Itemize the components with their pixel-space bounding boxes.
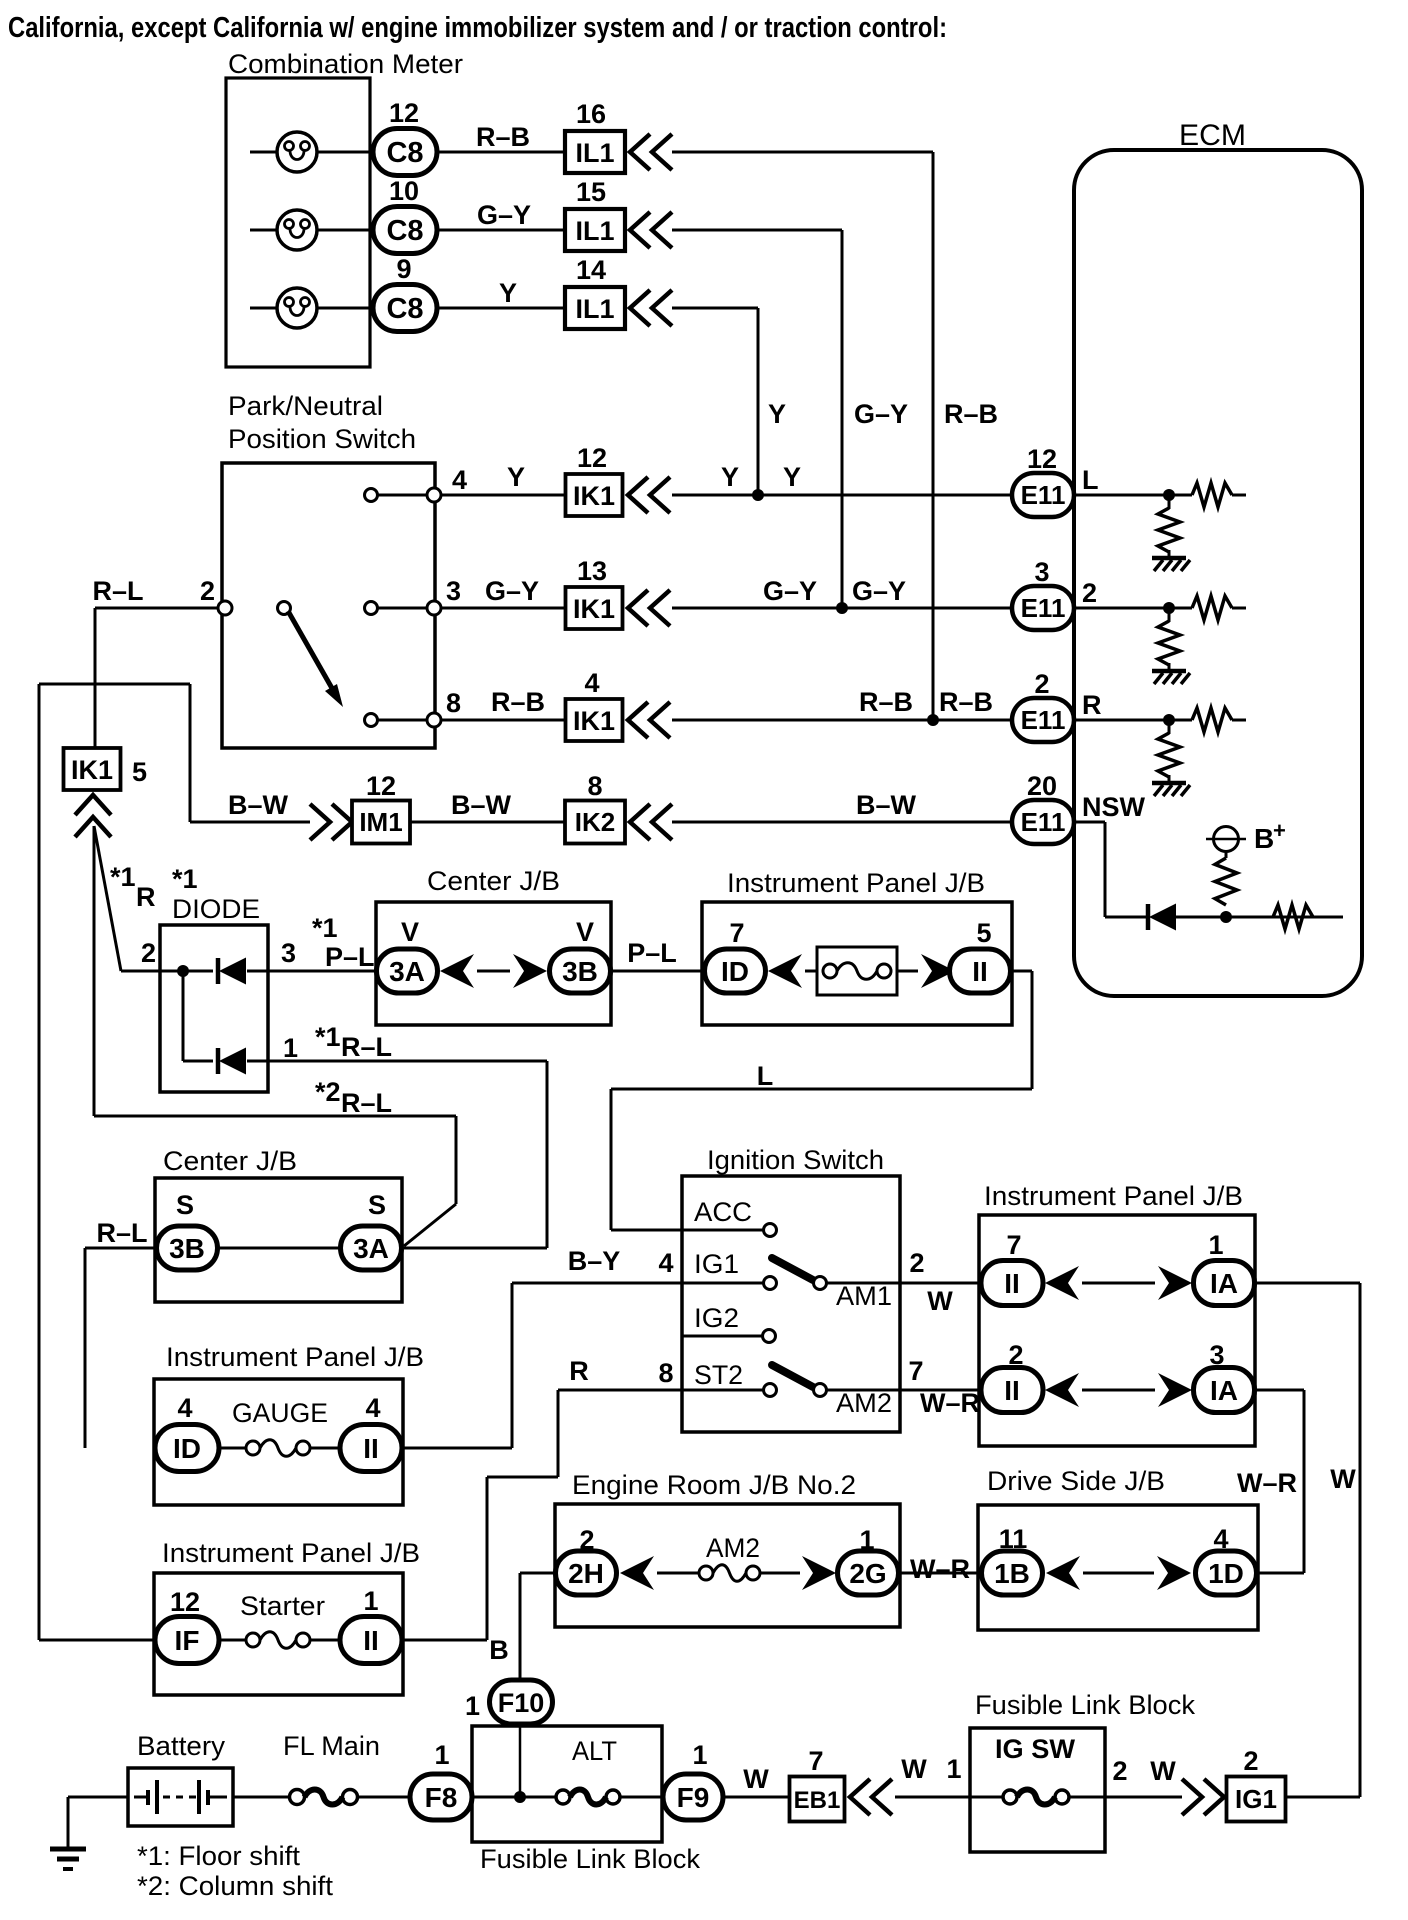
svg-text:IK1: IK1 (573, 706, 615, 736)
connector IK1 pin 12 (566, 474, 623, 516)
ground symbol (67, 1797, 70, 1848)
svg-text:2: 2 (1112, 1756, 1127, 1786)
svg-text:G–Y: G–Y (485, 576, 539, 606)
connector E11 pin 2 (R) (1012, 698, 1074, 742)
wire R-B from IL1 16 down to row R junction (672, 151, 933, 154)
svg-text:4: 4 (658, 1248, 673, 1278)
svg-text:IK1: IK1 (573, 594, 615, 624)
svg-text:7: 7 (729, 918, 744, 948)
svg-text:Y: Y (507, 462, 525, 492)
wire L from II pin 5 to ignition switch ACC (1010, 970, 1032, 973)
ECM NSW internal wire (1074, 821, 1105, 824)
svg-text:3: 3 (1034, 557, 1049, 587)
svg-text:Ignition Switch: Ignition Switch (707, 1145, 884, 1175)
wire F10 stem (519, 1724, 522, 1797)
wire W-R from IA3 to drive side J/B 1D (1254, 1389, 1304, 1392)
svg-text:Drive Side J/B: Drive Side J/B (987, 1466, 1165, 1496)
diode D1 (216, 958, 221, 984)
svg-text:Instrument Panel J/B: Instrument Panel J/B (984, 1181, 1243, 1211)
svg-text:Y: Y (783, 462, 801, 492)
connector ID pin 7 (705, 949, 766, 993)
svg-text:G–Y: G–Y (477, 200, 531, 230)
connector IL1 pin 14 (565, 287, 625, 329)
svg-text:IM1: IM1 (359, 807, 402, 837)
svg-text:3B: 3B (169, 1233, 205, 1264)
svg-text:E11: E11 (1021, 705, 1066, 735)
svg-text:R–B: R–B (491, 687, 545, 717)
chevrons before IG1 (1182, 1779, 1202, 1815)
svg-text:C8: C8 (386, 215, 423, 247)
wire R-B C8 to IL1 (437, 151, 565, 154)
switch contact pin 4 row (377, 494, 428, 497)
junction node R-B (927, 714, 939, 726)
svg-text:ID: ID (173, 1433, 201, 1464)
svg-text:IL1: IL1 (575, 138, 614, 168)
svg-text:2: 2 (909, 1248, 924, 1278)
connector C8 pin 12 (373, 129, 437, 176)
svg-text:II: II (363, 1625, 379, 1656)
svg-text:W–R: W–R (910, 1554, 970, 1584)
svg-text:Battery: Battery (137, 1731, 226, 1761)
arrow into 1B (1046, 1556, 1080, 1590)
arrow into II 2 (1045, 1373, 1079, 1407)
svg-text:2: 2 (1008, 1340, 1023, 1370)
svg-text:Y: Y (499, 278, 517, 308)
svg-text:1: 1 (283, 1033, 298, 1063)
svg-text:G–Y: G–Y (852, 576, 906, 606)
svg-text:IG1: IG1 (1235, 1784, 1277, 1814)
svg-text:16: 16 (576, 99, 606, 129)
wire Y C8 to IL1 (437, 307, 565, 310)
junction node F10 branch (514, 1791, 526, 1803)
svg-text:*1: *1 (110, 862, 136, 892)
svg-text:14: 14 (576, 255, 606, 285)
wire through fusible link block (472, 1796, 556, 1799)
wire G-Y C8 to IL1 (437, 229, 565, 232)
lamp bulb 3 in combination meter (250, 307, 277, 310)
arrow to 1D (1157, 1556, 1191, 1590)
svg-text:II: II (1004, 1375, 1020, 1406)
svg-text:ECM: ECM (1179, 119, 1246, 152)
svg-text:2: 2 (200, 576, 215, 606)
svg-text:5: 5 (132, 757, 147, 787)
svg-text:13: 13 (577, 556, 607, 586)
wire R-B switch pin8 to IK1 (441, 719, 566, 722)
svg-text:W: W (927, 1286, 953, 1316)
svg-text:2: 2 (1243, 1746, 1258, 1776)
connector E11 pin 20 (NSW) (1012, 800, 1074, 844)
svg-text:Instrument Panel J/B: Instrument Panel J/B (162, 1538, 420, 1568)
connector II pin 4 (340, 1425, 402, 1472)
svg-text:IL1: IL1 (575, 294, 614, 324)
svg-text:11: 11 (999, 1524, 1028, 1554)
svg-text:R–L: R–L (341, 1088, 392, 1118)
connector II pin 7 (981, 1261, 1043, 1306)
svg-text:Starter: Starter (240, 1591, 325, 1621)
ECM internal wire to B+ node (1176, 916, 1343, 919)
connector ID pin 4 (155, 1425, 219, 1472)
connector C8 pin 10 (373, 207, 437, 254)
svg-text:3: 3 (1209, 1340, 1224, 1370)
svg-text:1: 1 (434, 1740, 449, 1770)
ECM box (1074, 150, 1362, 996)
connector IK1 pin 13 (566, 587, 623, 629)
ECM internal pull-up row y=608 (1074, 607, 1192, 610)
connector 1B pin 11 (982, 1551, 1043, 1595)
svg-text:R–B: R–B (939, 687, 993, 717)
svg-text:R: R (569, 1356, 589, 1386)
svg-text:1: 1 (465, 1691, 480, 1721)
svg-text:R: R (1082, 690, 1102, 720)
fusible link block box (472, 1726, 662, 1842)
fuse box (817, 947, 897, 995)
svg-text:B: B (1254, 823, 1274, 854)
svg-text:B–W: B–W (451, 790, 512, 820)
svg-text:12: 12 (389, 98, 419, 128)
connector F10 pin 1 (490, 1680, 553, 1724)
svg-text:ACC: ACC (694, 1197, 752, 1227)
svg-text:G–Y: G–Y (763, 576, 817, 606)
svg-text:Y: Y (721, 462, 739, 492)
connector IK2 pin 8 (565, 801, 625, 844)
svg-text:E11: E11 (1021, 593, 1066, 623)
svg-text:3: 3 (281, 938, 296, 968)
connector EB1 pin 7 (790, 1777, 845, 1822)
svg-text:R–L: R–L (96, 1218, 147, 1248)
connector E11 pin 3 (2) (1012, 586, 1074, 630)
svg-text:C8: C8 (386, 137, 423, 169)
connector chevrons at IL1 pin 16 (630, 134, 650, 170)
wire B-W IM1 to IK2 (410, 821, 565, 824)
svg-text:4: 4 (177, 1393, 192, 1423)
starter box (154, 1573, 403, 1695)
wire R-B IK1 to ECM E11 pin 2 (672, 719, 1013, 722)
junction node B+ branch (1220, 911, 1232, 923)
svg-text:E11: E11 (1021, 480, 1066, 510)
svg-text:*1: *1 (315, 1022, 341, 1052)
svg-text:4: 4 (1213, 1524, 1228, 1554)
FL Main fusible link (290, 1790, 305, 1805)
svg-text:12: 12 (366, 771, 396, 801)
wire Y IK1 to ECM E11 pin 12 (672, 494, 1013, 497)
center J/B lower box (155, 1178, 402, 1302)
switch contact pin 8 row (377, 719, 428, 722)
connector IA pin 3 (1194, 1368, 1255, 1413)
ground (1152, 669, 1186, 674)
wire diode pin 3 to Center J/B 3A P-L (247, 970, 377, 973)
wire G-Y from IL1 15 down to row 2 junction (672, 229, 842, 232)
wire G-Y IK1 to ECM E11 pin 3 (672, 607, 1013, 610)
diode D2 (216, 1048, 221, 1074)
connector IG1 pin 2 (1227, 1777, 1286, 1822)
svg-text:GAUGE: GAUGE (232, 1398, 328, 1428)
connector IL1 pin 15 (565, 209, 625, 251)
svg-text:2G: 2G (849, 1558, 886, 1589)
svg-text:R–L: R–L (92, 576, 143, 606)
connector 3A (S) (341, 1226, 402, 1270)
connector IK1 pin 4 (566, 699, 623, 741)
svg-text:R–B: R–B (476, 122, 530, 152)
instrument panel J/B right box (979, 1215, 1255, 1446)
wire AM2 to II pin 2 (826, 1389, 981, 1392)
wire G-Y switch pin3 to IK1 (441, 607, 566, 610)
svg-text:W–R: W–R (920, 1388, 980, 1418)
svg-text:IK1: IK1 (573, 481, 615, 511)
svg-text:1: 1 (946, 1754, 961, 1784)
combination meter box (226, 78, 370, 367)
svg-text:1: 1 (692, 1740, 707, 1770)
svg-text:20: 20 (1027, 771, 1057, 801)
svg-text:7: 7 (808, 1746, 823, 1776)
arrow to 3B (513, 954, 547, 988)
park/neutral position switch box (222, 463, 435, 748)
svg-text:Center J/B: Center J/B (427, 866, 560, 896)
wire R-L from switch pin 2 to IK1 pin 5 (95, 607, 218, 610)
svg-text:II: II (1004, 1268, 1020, 1299)
svg-text:S: S (176, 1190, 194, 1220)
connector E11 pin 12 (L) (1012, 473, 1074, 517)
junction node diode pin 2 (177, 965, 189, 977)
ignition switch box (682, 1176, 900, 1432)
svg-text:W: W (1150, 1756, 1176, 1786)
diode block box (160, 925, 268, 1092)
ground (1152, 781, 1186, 786)
svg-text:4: 4 (365, 1393, 380, 1423)
svg-text:3A: 3A (353, 1233, 389, 1264)
svg-text:*1: Floor shift: *1: Floor shift (137, 1841, 301, 1871)
IG SW fusible link (1003, 1790, 1017, 1804)
connector 3B (S) (157, 1226, 218, 1270)
svg-text:IL1: IL1 (575, 216, 614, 246)
lamp bulb 2 in combination meter (250, 229, 277, 232)
wire Y from IL1 14 down to row L junction (672, 307, 758, 310)
svg-text:ST2: ST2 (694, 1360, 743, 1390)
connector chevrons at IL1 pin 15 (630, 212, 650, 248)
svg-text:2: 2 (579, 1525, 594, 1555)
connector II pin 5 (950, 949, 1011, 993)
svg-text:12: 12 (1027, 444, 1057, 474)
ground (1152, 556, 1186, 561)
wire between arrows (477, 970, 510, 973)
svg-text:Center J/B: Center J/B (163, 1146, 297, 1176)
chevrons at IK1 pin 13 (628, 590, 648, 626)
svg-text:Instrument Panel J/B: Instrument Panel J/B (727, 868, 985, 898)
connector 3A (V) (377, 949, 438, 993)
svg-text:8: 8 (658, 1358, 673, 1388)
svg-text:IG SW: IG SW (995, 1734, 1076, 1764)
svg-text:1: 1 (363, 1586, 378, 1616)
connector II pin 2 (981, 1368, 1043, 1413)
svg-text:1: 1 (1208, 1230, 1223, 1260)
connector IM1 pin 12 (352, 801, 410, 844)
svg-text:W: W (901, 1754, 927, 1784)
connector 1D pin 4 (1196, 1551, 1257, 1595)
switch contact pin 2 and lever (218, 601, 232, 615)
starter fuse (219, 1639, 246, 1642)
svg-text:IF: IF (175, 1625, 200, 1656)
svg-text:7: 7 (1006, 1230, 1021, 1260)
wire II7 to IA1 (1082, 1282, 1155, 1285)
fusible link block right box (970, 1728, 1105, 1852)
wire AM1 to II pin 7 (826, 1282, 981, 1285)
arrow into II 7 (1045, 1266, 1079, 1300)
svg-text:3A: 3A (389, 956, 425, 987)
lamp bulb 1 in combination meter (250, 151, 277, 154)
svg-text:V: V (401, 917, 419, 947)
svg-text:ALT: ALT (572, 1736, 617, 1766)
svg-text:+: + (1273, 818, 1286, 843)
svg-text:NSW: NSW (1082, 792, 1146, 822)
connector IL1 pin 16 (565, 131, 625, 173)
wire 1B to 1D (1083, 1572, 1154, 1575)
chevrons at EB1 (850, 1779, 870, 1815)
svg-text:10: 10 (389, 176, 419, 206)
svg-text:IK1: IK1 (71, 755, 113, 785)
connector IK1 pin 5 (64, 748, 121, 790)
svg-text:Fusible Link Block: Fusible Link Block (975, 1690, 1195, 1720)
connector IF pin 12 (155, 1617, 219, 1664)
connector chevrons at IL1 pin 14 (630, 290, 650, 326)
arrow to 2G (802, 1556, 836, 1590)
svg-text:B–W: B–W (228, 790, 289, 820)
svg-text:R–B: R–B (859, 687, 913, 717)
chevrons before IM1 (310, 804, 330, 840)
connector F8 pin 1 (410, 1774, 472, 1820)
engine room J/B box (555, 1504, 900, 1627)
ECM internal diode (1146, 904, 1151, 930)
drive side J/B box (978, 1505, 1258, 1630)
wire battery to FL main (68, 1796, 128, 1799)
wire B-Y II to ignition switch IG1 (402, 1447, 512, 1450)
wire B-W to IF (39, 1639, 155, 1642)
arrow to IA 1 (1158, 1266, 1192, 1300)
svg-text:FL Main: FL Main (283, 1731, 380, 1761)
connector 2H pin 2 (556, 1551, 617, 1595)
svg-text:8: 8 (587, 771, 602, 801)
svg-text:2: 2 (1082, 578, 1097, 608)
svg-text:IK2: IK2 (575, 807, 615, 837)
wire *1 R to diode pin 2 (94, 826, 121, 971)
wire IG SW to IG1 (1069, 1796, 1182, 1799)
switch contact pin 3 row (377, 607, 428, 610)
connector IA pin 1 (1194, 1261, 1255, 1306)
wire R from starter II to ignition ST2 (402, 1639, 487, 1642)
svg-text:Park/Neutral: Park/Neutral (228, 391, 383, 421)
svg-text:C8: C8 (386, 293, 423, 325)
svg-text:AM2: AM2 (836, 1388, 892, 1418)
wire B-W from IM1 left to starter branch (190, 821, 310, 824)
fuse (823, 964, 837, 978)
svg-text:Instrument Panel J/B: Instrument Panel J/B (166, 1342, 424, 1372)
ECM internal pull-up row y=720 (1074, 719, 1192, 722)
center J/B box (376, 902, 611, 1025)
svg-text:R–L: R–L (341, 1032, 392, 1062)
svg-text:9: 9 (396, 254, 411, 284)
gauge fuse (219, 1447, 246, 1450)
svg-text:ID: ID (721, 956, 749, 987)
connector 2G pin 1 (838, 1551, 899, 1595)
svg-text:L: L (757, 1061, 774, 1091)
gauge box (154, 1379, 403, 1505)
svg-text:Position Switch: Position Switch (228, 424, 416, 454)
AM2 fuse (657, 1572, 699, 1575)
junction node Y (752, 489, 764, 501)
svg-text:5: 5 (976, 918, 991, 948)
svg-text:Fusible Link Block: Fusible Link Block (480, 1844, 700, 1874)
svg-text:*1: *1 (312, 913, 338, 943)
instrument panel J/B box (702, 902, 1012, 1025)
wire W-R 2G to 1B (899, 1572, 982, 1575)
wire B-W IK2 to ECM E11 pin 20 (672, 821, 1013, 824)
connector 3B (V) (550, 949, 611, 993)
svg-text:12: 12 (170, 1587, 200, 1617)
arrow into 2H (620, 1556, 654, 1590)
junction node G-Y (836, 602, 848, 614)
svg-text:B: B (489, 1635, 509, 1665)
svg-text:IG2: IG2 (694, 1303, 739, 1333)
ECM internal pull-up row y=495 (1074, 494, 1192, 497)
wire II2 to IA3 (1082, 1389, 1155, 1392)
svg-text:B–Y: B–Y (568, 1246, 621, 1276)
svg-text:F8: F8 (425, 1782, 458, 1813)
svg-text:R–B: R–B (944, 399, 998, 429)
wire diode internal (182, 971, 185, 1061)
svg-text:*2: *2 (315, 1077, 341, 1107)
arrow to IA 3 (1158, 1373, 1192, 1407)
svg-text:W: W (743, 1764, 769, 1794)
resistor to B+ (1215, 858, 1237, 905)
svg-text:Combination Meter: Combination Meter (228, 49, 463, 79)
svg-text:IA: IA (1210, 1268, 1238, 1299)
svg-text:4: 4 (452, 465, 467, 495)
wire B from 2H to F10 (520, 1572, 556, 1575)
svg-text:F9: F9 (677, 1782, 710, 1813)
svg-text:L: L (1082, 465, 1099, 495)
svg-text:Y: Y (768, 399, 786, 429)
chevrons at IK1 pin 12 (628, 477, 648, 513)
svg-text:1: 1 (859, 1525, 874, 1555)
battery symbol (134, 1796, 146, 1799)
svg-text:12: 12 (577, 443, 607, 473)
wire Y switch pin4 to IK1 (441, 494, 566, 497)
chevrons at IK2 (630, 804, 650, 840)
svg-text:E11: E11 (1021, 807, 1066, 837)
wire EB1 to IG SW (895, 1796, 1003, 1799)
ALT fusible link (556, 1790, 570, 1804)
svg-text:P–L: P–L (325, 942, 375, 972)
svg-text:P–L: P–L (627, 938, 677, 968)
wire R-L from 3B to gauge ID (85, 1247, 157, 1250)
svg-text:F10: F10 (498, 1688, 545, 1718)
chevrons at IK1 pin 4 (628, 702, 648, 738)
svg-text:*1: *1 (172, 864, 198, 894)
wire P-L 3B to instrument panel J/B (611, 970, 705, 973)
svg-text:IA: IA (1210, 1375, 1238, 1406)
svg-text:Engine Room J/B No.2: Engine Room J/B No.2 (572, 1470, 856, 1500)
svg-text:California, except California: California, except California w/ engine … (8, 12, 947, 44)
svg-text:2: 2 (1034, 669, 1049, 699)
battery box (128, 1768, 233, 1826)
wire 3B to 3A internal (218, 1247, 341, 1250)
svg-text:G–Y: G–Y (854, 399, 908, 429)
wire *1 R-L from diode pin 1 (247, 1060, 547, 1063)
svg-text:R: R (136, 882, 156, 912)
svg-text:S: S (368, 1190, 386, 1220)
svg-text:II: II (972, 956, 988, 987)
connector F9 pin 1 (663, 1774, 723, 1820)
connector C8 pin 9 (373, 285, 437, 332)
arrow into ID (768, 954, 802, 988)
